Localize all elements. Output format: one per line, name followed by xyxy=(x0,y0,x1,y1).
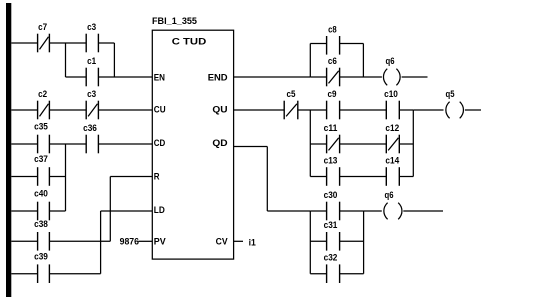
wire c14 row right xyxy=(399,176,413,178)
wire rung1 rail to c7 xyxy=(11,42,37,44)
svg-text:c39: c39 xyxy=(34,251,48,262)
wire rail to c40 xyxy=(11,210,37,212)
wire c8 row right xyxy=(340,43,364,45)
wire junction vertical c35 down to c40 rung xyxy=(65,144,67,211)
contact c35 (NO) xyxy=(38,135,50,154)
contact c2 (NC) xyxy=(38,101,50,120)
wire c11 to c12 xyxy=(340,143,387,145)
wire junction to q5 coil xyxy=(413,109,443,111)
wire branch left vertical xyxy=(65,43,67,77)
wire c10 to right junction xyxy=(399,109,413,111)
svg-text:c12: c12 xyxy=(385,123,399,134)
svg-text:q6: q6 xyxy=(386,56,395,67)
wire rail to c38 xyxy=(11,240,37,242)
contact c32 (NO) xyxy=(327,264,340,283)
svg-text:q5: q5 xyxy=(446,89,456,100)
svg-text:c13: c13 xyxy=(324,155,338,166)
svg-text:CU: CU xyxy=(154,105,166,116)
wire rail to c39 xyxy=(11,273,37,275)
wire vertical LD to c39 rung xyxy=(100,211,102,274)
svg-text:c8: c8 xyxy=(328,24,337,35)
svg-text:FBI_1_355: FBI_1_355 xyxy=(152,16,198,27)
wire c31 row right xyxy=(340,240,364,242)
wire QD to left junction xyxy=(267,210,310,212)
contact c3 (NO) xyxy=(86,34,98,53)
svg-text:R: R xyxy=(154,172,160,183)
wire c35 to c36 xyxy=(49,143,86,145)
wire c38 to R vertical xyxy=(49,240,110,242)
contact c39 (NO) xyxy=(38,264,50,283)
contact c6 (NC) xyxy=(327,68,340,87)
svg-text:CV: CV xyxy=(216,237,229,248)
wire c32 row left xyxy=(310,273,326,275)
svg-text:q6: q6 xyxy=(385,190,394,201)
wire after q5 coil xyxy=(465,109,481,111)
wire c8 branch right vertical xyxy=(362,44,364,78)
contact c38 (NO) xyxy=(38,232,50,251)
svg-text:c9: c9 xyxy=(328,89,337,100)
wire c30 to junction xyxy=(340,210,364,212)
wire after q6 second coil xyxy=(403,210,443,212)
wire QD pin stub xyxy=(234,146,268,148)
contact c31 (NO) xyxy=(327,232,340,251)
wire c36 to CD pin xyxy=(98,143,152,145)
svg-text:c6: c6 xyxy=(328,56,337,67)
wire CV to i1 xyxy=(234,240,243,242)
svg-text:c32: c32 xyxy=(324,253,338,264)
wire QU pin to c5 xyxy=(234,109,285,111)
wire rung3 rail to c35 xyxy=(11,143,37,145)
wire c37 to junction xyxy=(49,176,65,178)
svg-text:LD: LD xyxy=(154,205,165,216)
svg-text:c3: c3 xyxy=(87,22,96,33)
wire branch right vertical xyxy=(113,43,115,77)
wire c7 to c3 xyxy=(49,42,86,44)
wire QD vertical down xyxy=(266,147,268,212)
contact c30 (NO) xyxy=(327,202,340,221)
wire LD input horizontal xyxy=(101,210,153,212)
wire c5 to c9 xyxy=(298,109,327,111)
svg-text:c37: c37 xyxy=(34,154,48,165)
svg-text:QU: QU xyxy=(212,105,227,116)
svg-text:c1: c1 xyxy=(87,56,97,67)
contact c13 (NO) xyxy=(327,167,340,186)
contact c11 (NC) xyxy=(327,135,340,154)
contact c40 (NO) xyxy=(38,202,50,221)
wire junction to q6 second coil xyxy=(364,210,382,212)
wire vertical R to c38 rung xyxy=(109,177,111,242)
svg-text:c40: c40 xyxy=(34,189,48,200)
wire END pin to c8 branch xyxy=(234,76,311,78)
contact c7 (NC) xyxy=(38,34,50,53)
wire c31 row left xyxy=(310,240,326,242)
wire after q6 coil xyxy=(402,76,428,78)
wire c8 branch left vertical xyxy=(309,44,311,78)
svg-text:c5: c5 xyxy=(287,89,297,100)
contact c37 (NO) xyxy=(38,167,50,186)
svg-text:c31: c31 xyxy=(324,220,338,231)
wire c8 row left xyxy=(310,43,326,45)
contact c1 (NO) xyxy=(86,68,98,87)
wire c1 branch left xyxy=(66,76,87,78)
svg-text:END: END xyxy=(208,73,228,84)
svg-text:c36: c36 xyxy=(83,123,97,134)
svg-text:c7: c7 xyxy=(38,22,47,33)
wire c3 to branch corner xyxy=(98,42,114,44)
svg-text:EN: EN xyxy=(154,73,165,84)
contact c3 second (NC) xyxy=(86,101,98,120)
coil q5 xyxy=(446,102,464,119)
wire QU network right vertical xyxy=(412,110,414,177)
svg-text:CD: CD xyxy=(154,138,166,149)
svg-text:QD: QD xyxy=(212,138,227,149)
wire QU network left vertical xyxy=(309,110,311,177)
wire c39 to LD vertical xyxy=(49,273,100,275)
contact c5 (NC) xyxy=(284,101,298,120)
contact c36 (NO) xyxy=(86,135,98,154)
svg-text:c3: c3 xyxy=(87,89,96,100)
svg-text:C TUD: C TUD xyxy=(172,37,207,48)
svg-text:c14: c14 xyxy=(385,155,399,166)
svg-text:PV: PV xyxy=(154,237,167,248)
contact c9 (NO) xyxy=(327,101,340,120)
wire c2 to c3 xyxy=(49,109,86,111)
contact c12 (NC) xyxy=(386,135,399,154)
coil q6 xyxy=(383,69,400,86)
wire c32 row right xyxy=(340,273,364,275)
wire c30 row to contact xyxy=(310,210,326,212)
contact c8 (NO) xyxy=(327,36,340,55)
wire rail to c37 xyxy=(11,176,37,178)
svg-text:9876: 9876 xyxy=(120,237,139,248)
wire to c6 xyxy=(310,76,326,78)
wire c3 to CU pin xyxy=(98,109,152,111)
wire QD network left vertical xyxy=(309,211,311,274)
wire c6 to q6 coil xyxy=(340,76,382,78)
wire c40 to junction xyxy=(49,210,65,212)
coil q6 second xyxy=(384,203,402,220)
contact c10 (NO) xyxy=(386,101,399,120)
function block U1 CTUD FBI_1_355 xyxy=(152,30,233,259)
svg-text:c30: c30 xyxy=(324,190,338,201)
wire QD network right vertical xyxy=(363,211,365,274)
svg-text:i1: i1 xyxy=(249,238,257,249)
wire c9 to c10 xyxy=(340,109,387,111)
svg-text:c38: c38 xyxy=(34,219,48,230)
svg-text:c2: c2 xyxy=(38,89,47,100)
svg-text:c35: c35 xyxy=(34,122,48,133)
wire R input horizontal xyxy=(110,176,152,178)
wire 9876 to PV pin xyxy=(138,240,152,242)
svg-text:c11: c11 xyxy=(324,123,338,134)
wire rung2 rail to c2 xyxy=(11,109,37,111)
wire c13 to c14 xyxy=(340,176,387,178)
wire c1 to EN pin xyxy=(98,76,152,78)
wire c13 row left xyxy=(310,176,326,178)
wire c11 row left xyxy=(310,143,326,145)
contact c14 (NO) xyxy=(386,167,399,186)
left power rail xyxy=(6,3,11,297)
svg-text:c10: c10 xyxy=(384,89,398,100)
wire c12 row right xyxy=(399,143,413,145)
